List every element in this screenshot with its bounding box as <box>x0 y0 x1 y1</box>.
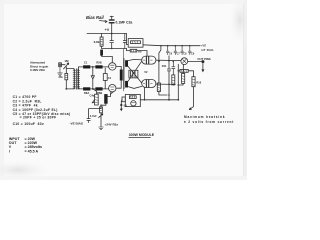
wire R9 to V3 top <box>137 51 147 57</box>
wire R6A-R6B <box>90 88 95 90</box>
wire V2 cathode to dark bar <box>108 94 111 96</box>
wire V2 cathode down <box>111 92 114 94</box>
svg-text:C1 = 4700 PF: C1 = 4700 PF <box>13 95 37 99</box>
speaker circle inside box <box>131 101 136 106</box>
wire R1 to bottom <box>65 80 67 89</box>
svg-text:+VE: +VE <box>201 44 207 48</box>
svg-text:8Ω: 8Ω <box>124 105 127 108</box>
cathode resistor dark bar <box>104 94 107 104</box>
label 1M <box>64 59 69 63</box>
wire to transformer primary bottom <box>66 88 74 90</box>
resistor R4 dark below bias wire <box>100 50 103 56</box>
svg-text:OUT PINS: OUT PINS <box>197 57 210 61</box>
bias network box <box>129 70 138 78</box>
T2 core <box>122 49 125 91</box>
capacitor C2a <box>109 20 114 23</box>
crossed wire secondary to V4 <box>128 66 142 83</box>
wire V2 anode to T2 primary <box>116 87 120 89</box>
output tube V4 <box>142 80 156 88</box>
vertical wire x169 with cap <box>167 56 170 100</box>
svg-text:0.1MV 20Ω: 0.1MV 20Ω <box>30 68 45 72</box>
title 300W MODULE <box>129 133 155 137</box>
label V3 <box>144 70 148 74</box>
svg-text:300W MODULE: 300W MODULE <box>129 133 155 137</box>
HT rail drop C8 <box>181 46 184 55</box>
arrow flourish under Bias Rail <box>100 21 108 23</box>
resistor R14 <box>182 73 185 83</box>
crossed wire secondary to V3 <box>128 61 142 81</box>
diode D1 between branches <box>91 67 94 89</box>
label +VE HT RAIL <box>201 44 215 52</box>
pot 1M arrow <box>64 63 69 69</box>
capacitor C3a <box>110 34 114 49</box>
label 4.7uF <box>90 114 97 118</box>
wire rail to zobel box <box>127 34 129 45</box>
svg-text:R11: R11 <box>162 64 167 68</box>
junction dot <box>111 33 113 35</box>
junction dots bias bottom <box>111 48 113 50</box>
wire V1 anode to T2 primary <box>116 65 120 67</box>
input jack <box>59 63 62 67</box>
capacitor C2a top terminal <box>110 16 113 19</box>
wire V4 anode right <box>156 83 175 85</box>
svg-text:= 45.5 A: = 45.5 A <box>25 149 39 153</box>
transformer T1 secondary winding <box>77 69 79 89</box>
wire to ground <box>100 118 102 127</box>
zobel box <box>128 39 143 48</box>
wire left to 4.7uF cap <box>89 109 101 119</box>
label C1 <box>84 61 88 65</box>
wire R4 to V1 screen stub <box>102 56 113 63</box>
svg-text:+V: +V <box>105 28 110 32</box>
T2 primary winding dark bar <box>120 70 123 81</box>
wire to transformer primary top <box>66 68 74 71</box>
resistor R6B <box>95 87 102 90</box>
svg-text:Bias Rail: Bias Rail <box>86 15 105 20</box>
svg-text:47k: 47k <box>58 75 63 79</box>
wire box right to verticals <box>140 99 178 101</box>
wire U5 bottom to R14 <box>182 64 184 73</box>
wire U5 to OUT <box>188 61 202 63</box>
text -VE BIAS <box>70 122 83 126</box>
capacitor C12 in chain <box>100 107 103 113</box>
resistor R13 <box>172 75 175 85</box>
wire chain down <box>100 105 102 108</box>
screen resistor R9 <box>130 49 137 52</box>
T2 secondary bottom dark bar <box>125 81 128 88</box>
wire box left stub <box>120 99 123 101</box>
transformer T1 core <box>75 69 78 90</box>
ground arrow under box left <box>120 102 122 109</box>
label R9 <box>138 49 142 53</box>
vertical wire x178.3 down <box>177 71 179 100</box>
wire dark bar bottom <box>101 104 106 106</box>
HT rail drop C9 <box>189 46 192 55</box>
label 0.1MF C2a <box>116 20 133 24</box>
label +V <box>105 28 110 32</box>
wire bias box top <box>93 89 97 94</box>
wire secondary bottom to R6A <box>78 88 83 90</box>
wire secondary top end to V3 <box>128 59 142 60</box>
svg-text:-VE BIAS: -VE BIAS <box>70 122 83 126</box>
svg-text:0.1MF C2a: 0.1MF C2a <box>116 20 133 24</box>
resistor R15 horizontal <box>180 69 188 72</box>
output tube V3 <box>142 56 156 64</box>
svg-text:V2: V2 <box>144 70 148 74</box>
label 47k <box>58 75 63 79</box>
label R16 <box>196 81 201 85</box>
output terminal <box>201 60 204 63</box>
label R6B <box>97 91 102 95</box>
svg-text:R5B: R5B <box>96 60 101 64</box>
driver tube V2 <box>109 85 116 92</box>
svg-text:C1: C1 <box>84 61 88 65</box>
svg-text:HT RAIL: HT RAIL <box>202 48 215 52</box>
wire R15 right to R16 <box>188 71 193 77</box>
resistor R5A <box>83 65 90 68</box>
right note text <box>184 115 234 124</box>
svg-text:6.8k: 6.8k <box>94 40 100 44</box>
capacitor C4 box <box>104 68 106 89</box>
text OUT PINS <box>197 57 210 61</box>
wire cap to bias rail <box>111 24 113 34</box>
wire R9 left <box>127 49 131 51</box>
junction dot top branch <box>92 66 94 68</box>
resistor R5B <box>95 65 102 68</box>
svg-text:4.7uF: 4.7uF <box>90 114 97 118</box>
HT rail drop C7 <box>174 46 177 55</box>
svg-text:C4a: C4a <box>90 94 95 98</box>
wire R11 down then right <box>159 92 167 96</box>
small box left of transformer <box>122 97 125 102</box>
ground symbol chain <box>99 127 104 130</box>
svg-text:C4: C4 <box>108 76 112 80</box>
resistor R1 input <box>65 73 68 79</box>
capacitor C5a dashes <box>123 34 126 49</box>
text +24V R3x <box>105 122 119 126</box>
output transformer box <box>125 94 140 106</box>
wire V4 bottom to output wire <box>144 88 146 100</box>
junction dot on V3 wire <box>168 60 170 62</box>
resistor R3 <box>100 37 103 46</box>
label R11 <box>162 64 167 68</box>
wire R5B to V1 grid <box>103 66 109 68</box>
resistor R16 <box>192 77 195 87</box>
label C4a <box>90 94 95 98</box>
parts list text <box>13 95 71 126</box>
wire secondary top to R5A <box>78 67 83 69</box>
bottom wire of bias section <box>102 48 127 50</box>
power figures text <box>9 137 42 154</box>
resistor inside box <box>131 41 141 44</box>
wire R16 down with arrow <box>189 87 193 110</box>
wire rail to resistor R3 <box>101 34 103 38</box>
svg-text:+24V R3x: +24V R3x <box>105 122 119 126</box>
capacitor 4.7uF <box>87 119 90 123</box>
pot arrow in chain <box>99 113 103 118</box>
T2 secondary top dark bar <box>125 60 128 67</box>
wire terminal down arrow <box>202 63 204 69</box>
text: Bias Rail label <box>86 15 105 20</box>
capacitor C11 <box>172 62 175 75</box>
svg-text:± 2 volts from current: ± 2 volts from current <box>184 120 234 124</box>
wire R5A-R5B <box>90 66 95 68</box>
junction dot on V4 wire <box>168 84 170 86</box>
svg-text:I: I <box>9 149 10 153</box>
resistor R11 <box>157 83 160 92</box>
bias pot resistor <box>95 94 99 105</box>
label C4 <box>108 76 112 80</box>
wire secondary bottom end to V4 <box>128 86 142 88</box>
HT rail drop C6 <box>166 46 169 55</box>
wire R15 left to U5 <box>178 64 180 71</box>
wire jack to pot <box>61 64 65 66</box>
wire V3 anode right <box>156 59 181 61</box>
HT wire from box to right rail <box>143 44 200 47</box>
svg-text:R16: R16 <box>196 81 201 85</box>
resistor inside box <box>129 96 136 99</box>
wire R3 to bottom wire <box>101 46 103 48</box>
svg-text:C10 = 100uF 63v: C10 = 100uF 63v <box>13 122 44 126</box>
wire HT rail down left column <box>159 46 161 83</box>
label 6.8k <box>94 40 100 44</box>
driver tube V1 <box>109 63 116 70</box>
bias rail wire <box>87 33 127 35</box>
label R6A <box>84 91 89 95</box>
ground under jack <box>58 67 63 76</box>
resistor R6A <box>83 87 90 90</box>
wire R6B to V2 grid <box>103 88 109 90</box>
junction dot input bottom <box>65 88 67 90</box>
wire R14 down <box>178 83 183 85</box>
paper background <box>0 0 247 180</box>
wire R13 down <box>172 84 174 86</box>
svg-text:R9: R9 <box>138 49 142 53</box>
junction dot bottom branch <box>92 88 94 90</box>
svg-text:1M: 1M <box>64 59 69 63</box>
wire pot down <box>65 67 67 74</box>
pot wiper arrow <box>92 100 94 103</box>
svg-text:= 20PF + 25 or 30PF: = 20PF + 25 or 30PF <box>20 116 57 120</box>
label R5B <box>96 60 101 64</box>
small tube U5 <box>181 58 188 65</box>
text attenuator note <box>30 61 49 73</box>
transformer T1 primary winding <box>73 69 75 89</box>
svg-text:Maximum heatsink: Maximum heatsink <box>184 115 225 119</box>
